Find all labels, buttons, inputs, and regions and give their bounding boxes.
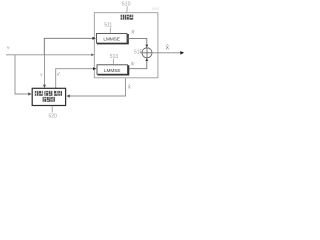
arrowhead into decision box right: [66, 94, 70, 97]
line1: simulated hangul 잡음 제거 강도: [35, 91, 62, 96]
arrowhead into LMMSE 513: [93, 67, 97, 70]
svg-text:513: 513: [110, 54, 119, 60]
LMMSE box U513: [97, 65, 129, 75]
svg-text:X̂: X̂: [128, 84, 131, 90]
LMMSE box U511: [97, 34, 129, 44]
svg-text:X̂ʹ: X̂ʹ: [131, 29, 135, 35]
arrowhead into LMMSE 511: [92, 37, 96, 40]
svg-text:X̂: X̂: [166, 44, 170, 51]
label 520: [49, 106, 58, 120]
outer box U510 prediction unit: [94, 13, 158, 78]
wire Y main horizontal: [6, 54, 94, 56]
svg-text:Y: Y: [40, 73, 43, 78]
wire LMMSE513 output to adder bottom: [129, 61, 147, 69]
wire adder output X hat: [152, 52, 182, 54]
faint artifact top right: [152, 8, 159, 10]
svg-text:X̂ʹ: X̂ʹ: [131, 61, 135, 67]
svg-text:520: 520: [49, 114, 58, 120]
adder circle U515: [142, 48, 152, 58]
label 510: [122, 2, 131, 13]
arrowhead into decision box left: [28, 92, 32, 95]
wire from decision box top up into LMMSE 513: [56, 69, 95, 89]
svg-text:510: 510: [122, 2, 131, 8]
arrowhead into outer box at y=54.8: [91, 53, 94, 56]
arrowhead into adder top: [145, 45, 148, 48]
label 예측부 (prediction unit, simulated hangul): [121, 15, 134, 20]
label 515: [134, 49, 143, 55]
line2: simulated hangul 결정부: [43, 97, 55, 102]
arrowhead into adder bottom: [145, 58, 148, 61]
svg-text:LMMSE: LMMSE: [104, 68, 121, 73]
arrowhead into decision box top: [43, 85, 46, 88]
arrowhead output: [180, 51, 184, 55]
svg-text:LMMSE: LMMSE: [103, 37, 120, 42]
svg-text:511: 511: [104, 23, 112, 29]
label 513: [110, 54, 119, 65]
wire branch down-left to decision box: [15, 55, 30, 94]
decision box U520 (noise reduction strength decision unit): [32, 88, 65, 105]
wire LMMSE511 output to adder top: [128, 38, 147, 45]
wire feedback from outer box bottom to decision box: [69, 78, 126, 96]
wire branch down to decision box top: [44, 55, 46, 87]
label 511: [104, 23, 112, 34]
wire branch up to LMMSE 511: [44, 38, 93, 55]
